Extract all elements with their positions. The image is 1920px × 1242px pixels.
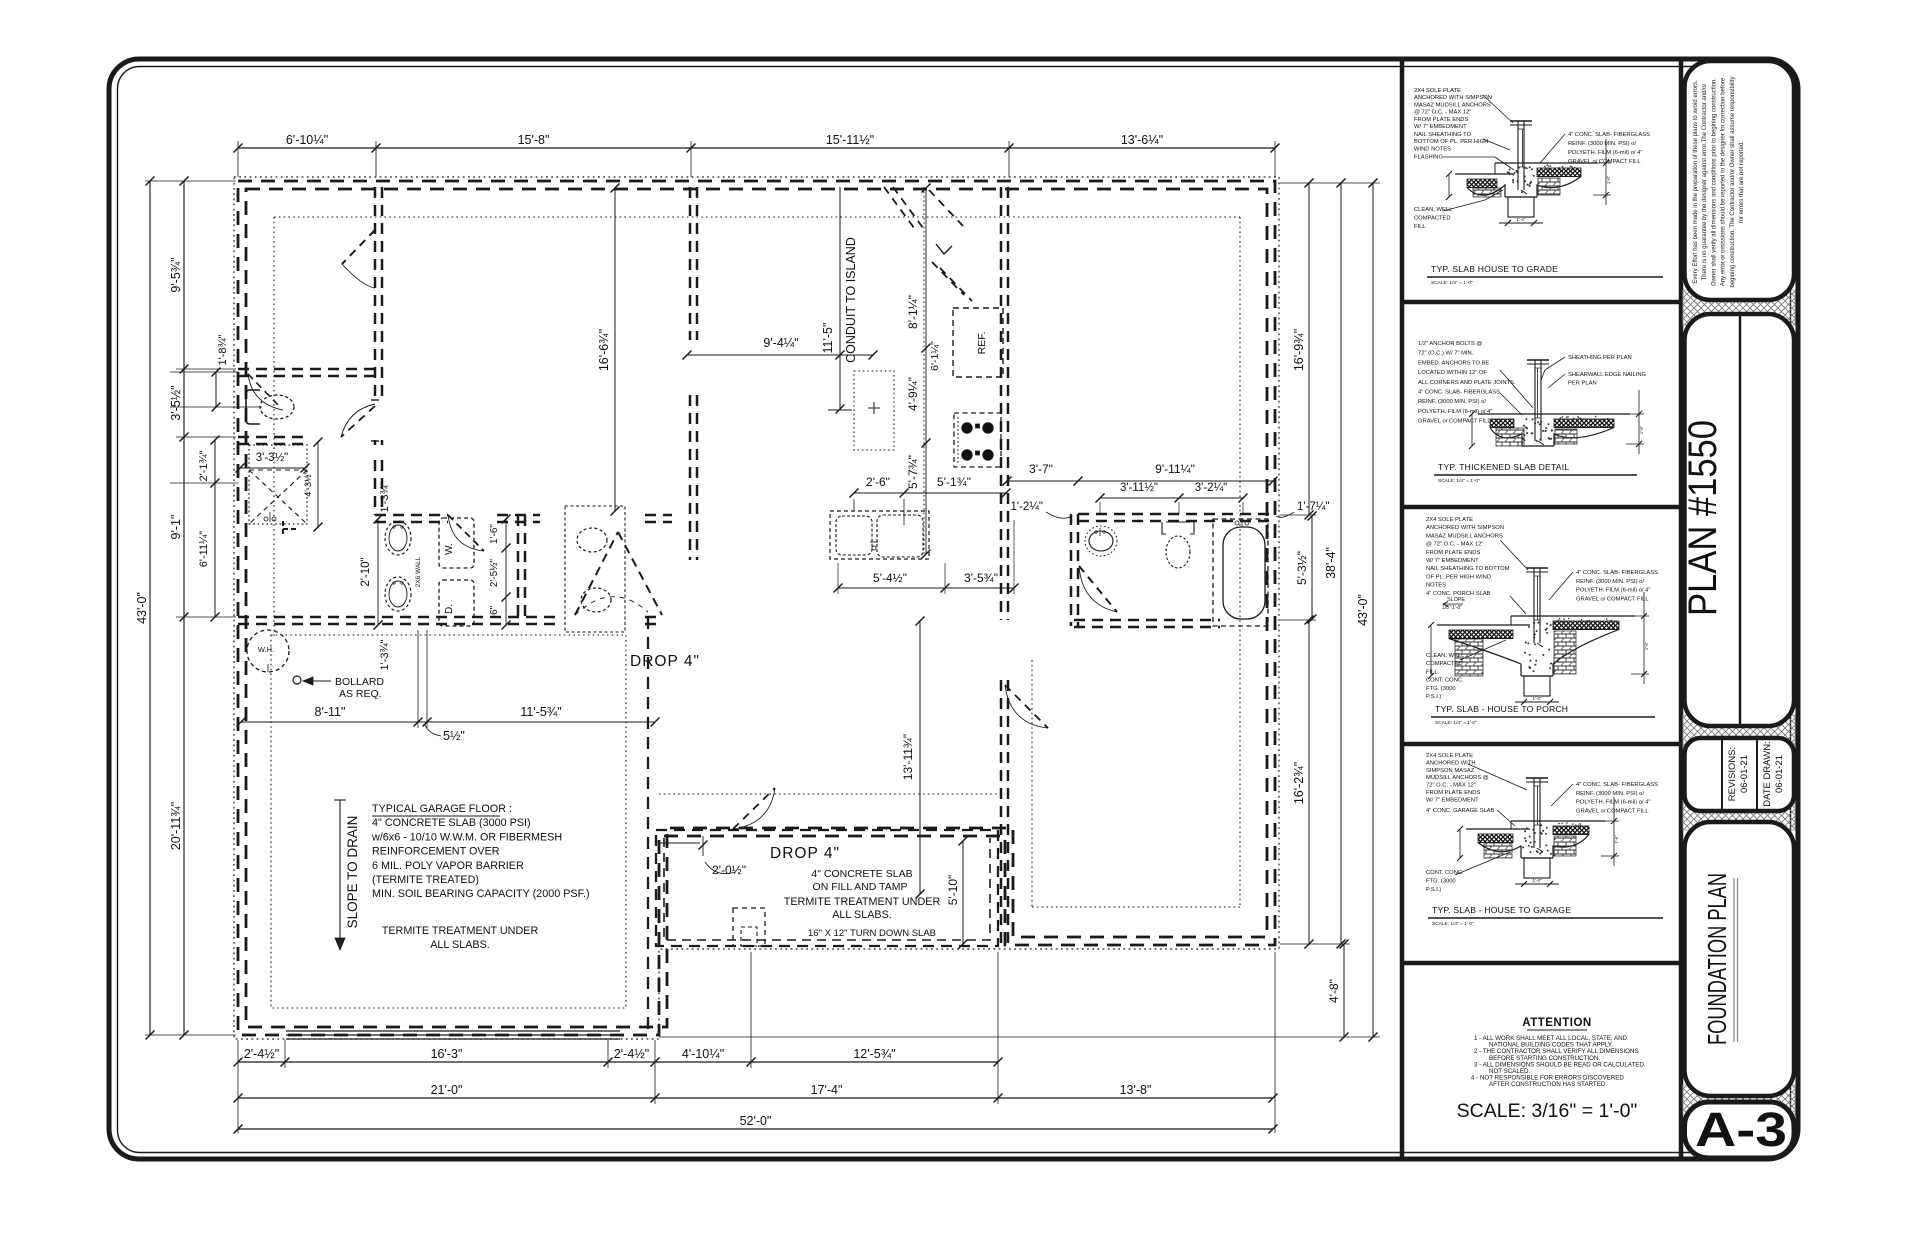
svg-text:W/ 7" EMBEDMENT: W/ 7" EMBEDMENT — [1426, 797, 1479, 803]
svg-text:LOCATED WITHIN 12" OF: LOCATED WITHIN 12" OF — [1418, 370, 1487, 376]
nook interior dim 13-11 — [919, 620, 921, 895]
right dim 4-8 — [1343, 944, 1345, 1037]
wall bath2 west — [1070, 514, 1073, 626]
svg-text:2'-10": 2'-10" — [360, 557, 372, 586]
kitchen sink dim 2-6 — [854, 492, 1006, 494]
svg-text:W.H.: W.H. — [258, 645, 274, 654]
sheet inner border — [118, 67, 1791, 1153]
door bath2 swing — [1079, 566, 1117, 612]
svg-text:GRAVEL o/ COMPACT FILL: GRAVEL o/ COMPACT FILL — [1576, 596, 1649, 602]
svg-text:POLYETH. FILM (6-mil) o/ 4": POLYETH. FILM (6-mil) o/ 4" — [1568, 150, 1642, 156]
svg-text:There is no guarantee by the d: There is no guarantee by the designer ag… — [1702, 84, 1708, 281]
water heater — [247, 630, 289, 672]
wall utility east — [517, 515, 520, 617]
svg-text:ANCHORED WITH SIMPSON: ANCHORED WITH SIMPSON — [1426, 525, 1504, 531]
svg-text:72" O.C. - MAX 12": 72" O.C. - MAX 12" — [1426, 783, 1476, 789]
wall bath1 south — [238, 436, 310, 439]
svg-text:BOLLARD: BOLLARD — [335, 676, 384, 688]
svg-text:SCALE: 3/16" = 1'-0": SCALE: 3/16" = 1'-0" — [1457, 1100, 1638, 1122]
svg-text:38'-4": 38'-4" — [1324, 547, 1338, 579]
svg-text:9'-11¼": 9'-11¼" — [1155, 462, 1195, 476]
detail panel divider 3 — [1402, 742, 1681, 747]
svg-text:FROM PLATE ENDS: FROM PLATE ENDS — [1426, 550, 1480, 556]
bottom dimension row 2 — [238, 1097, 1273, 1099]
bath1 shower dim 4-3half — [317, 441, 319, 528]
svg-text:6'-11¼": 6'-11¼" — [198, 531, 210, 567]
wall family/kitchen divider — [689, 187, 692, 340]
cooktop — [954, 413, 1001, 467]
svg-text:DROP 4": DROP 4" — [630, 653, 700, 670]
panel 4 leader lines — [1468, 764, 1527, 790]
svg-text:SCALE: 1/4" = 1'-0": SCALE: 1/4" = 1'-0" — [1432, 921, 1474, 927]
svg-text:13'-8": 13'-8" — [1120, 1083, 1152, 1097]
svg-text:ALL CORNERS AND PLATE JOINTS.: ALL CORNERS AND PLATE JOINTS. — [1418, 380, 1516, 386]
svg-text:CONT. CONC.: CONT. CONC. — [1426, 870, 1464, 876]
svg-text:REINF. (3000 MIN. PSI) o/: REINF. (3000 MIN. PSI) o/ — [1418, 399, 1486, 405]
svg-text:MASAZ MUDSILL ANCHORS: MASAZ MUDSILL ANCHORS — [1414, 102, 1491, 108]
garage double door swing — [575, 532, 618, 615]
svg-text:16'-2¾": 16'-2¾" — [1292, 762, 1306, 804]
bath2 dim tier2 — [1100, 497, 1243, 499]
svg-text:16" X 12" TURN DOWN SLAB: 16" X 12" TURN DOWN SLAB — [808, 928, 936, 939]
svg-text:EMBED. ANCHORS TO BE: EMBED. ANCHORS TO BE — [1418, 360, 1489, 366]
svg-text:Owner shall verify all dimensi: Owner shall verify all dimensions and co… — [1711, 78, 1717, 286]
wall master west — [1000, 680, 1003, 945]
top extension lines — [237, 141, 239, 177]
slope to drain arrow — [339, 800, 341, 950]
svg-text:1'-6": 1'-6" — [1606, 175, 1611, 184]
svg-text:5½": 5½" — [443, 729, 465, 743]
svg-text:2X6 WALL: 2X6 WALL — [415, 556, 422, 587]
svg-text:5'-4½": 5'-4½" — [873, 571, 907, 585]
svg-text:ANCHORED WITH: ANCHORED WITH — [1426, 760, 1476, 766]
svg-text:1'-4": 1'-4" — [1533, 696, 1542, 701]
refrigerator — [953, 308, 1003, 377]
svg-text:TYP. SLAB - HOUSE TO PORCH: TYP. SLAB - HOUSE TO PORCH — [1435, 704, 1568, 714]
left dim 43-0 — [149, 181, 151, 1035]
detail panel divider 2 — [1402, 505, 1681, 510]
svg-text:POLYETH. FILM (6-mil) o/ 4": POLYETH. FILM (6-mil) o/ 4" — [1576, 588, 1650, 594]
svg-text:PLAN #1550: PLAN #1550 — [1681, 420, 1725, 616]
svg-text:FOUNDATION PLAN: FOUNDATION PLAN — [1702, 873, 1732, 1045]
svg-text:1'-6": 1'-6" — [489, 524, 500, 544]
svg-text:17'-4": 17'-4" — [811, 1083, 843, 1097]
porch slab outline — [656, 830, 998, 946]
door nook to porch swing — [733, 788, 775, 829]
plan number box — [1685, 314, 1795, 726]
svg-text:NAIL SHEATHING TO: NAIL SHEATHING TO — [1414, 132, 1472, 138]
svg-text:TYPICAL GARAGE FLOOR :: TYPICAL GARAGE FLOOR : — [372, 803, 512, 815]
foundation outer dotted slab edge — [234, 177, 1279, 1039]
svg-text:1'-7¼": 1'-7¼" — [1297, 501, 1330, 513]
svg-text:-6": -6" — [489, 605, 500, 618]
svg-text:ALL SLABS.: ALL SLABS. — [832, 909, 892, 921]
svg-text:REINF. (3000 MIN. PSI) o/: REINF. (3000 MIN. PSI) o/ — [1576, 791, 1644, 797]
bottom extension lines — [237, 1040, 239, 1133]
svg-text:1'-3¾": 1'-3¾" — [379, 639, 391, 670]
svg-text:PER PLAN: PER PLAN — [1568, 381, 1597, 387]
top dimension row — [238, 147, 1275, 149]
svg-text:(TERMITE TREATED): (TERMITE TREATED) — [372, 874, 479, 886]
svg-text:4'-10¼": 4'-10¼" — [682, 1047, 724, 1061]
svg-text:TYP. SLAB - HOUSE TO GARAGE: TYP. SLAB - HOUSE TO GARAGE — [1432, 905, 1571, 915]
svg-text:ALL SLABS.: ALL SLABS. — [430, 939, 490, 951]
svg-text:FILL: FILL — [1414, 224, 1426, 230]
detail panel divider 1 — [1402, 300, 1681, 305]
svg-text:P.S.I.): P.S.I.) — [1426, 887, 1441, 893]
door bedroom2 swing — [342, 230, 375, 264]
svg-text:6 MIL. POLY VAPOR BARRIER: 6 MIL. POLY VAPOR BARRIER — [372, 860, 524, 872]
wall bath2 north — [1078, 513, 1275, 516]
svg-text:ON FILL AND TAMP: ON FILL AND TAMP — [813, 881, 908, 893]
svg-text:CONT. CONC.: CONT. CONC. — [1426, 678, 1464, 684]
svg-text:2'-4½": 2'-4½" — [614, 1047, 649, 1061]
foundation exterior wall outer dashed line — [238, 181, 1275, 1035]
svg-text:W.: W. — [444, 543, 455, 555]
bath2 tub — [1213, 519, 1268, 626]
plan number box divider — [1739, 316, 1742, 724]
svg-text:6'-10¼": 6'-10¼" — [286, 133, 328, 147]
panel 2 leader lines — [1500, 370, 1533, 408]
garage interior dim 8-11 / 11-5 / 5half — [241, 721, 655, 723]
svg-text:1/8":1'-0": 1/8":1'-0" — [1442, 605, 1462, 611]
svg-text:FROM PLATE ENDS: FROM PLATE ENDS — [1426, 790, 1480, 796]
svg-text:CONDUIT TO ISLAND: CONDUIT TO ISLAND — [844, 237, 858, 363]
svg-text:@ 72" O.C. - MAX 12": @ 72" O.C. - MAX 12" — [1414, 110, 1471, 116]
svg-text:8'-1¼": 8'-1¼" — [906, 295, 920, 329]
bath2 dim 3-7 and 9-11 — [1007, 480, 1273, 482]
svg-text:REVISIONS:: REVISIONS: — [1727, 747, 1738, 801]
family room dim 16-6 — [614, 187, 616, 512]
svg-text:TYP. SLAB HOUSE TO GRADE: TYP. SLAB HOUSE TO GRADE — [1431, 264, 1558, 274]
svg-text:3'-5¾": 3'-5¾" — [964, 571, 998, 585]
disclaimer box — [1685, 61, 1795, 300]
svg-text:3'-5½": 3'-5½" — [169, 385, 183, 420]
svg-text:w/6x6 - 10/10 W.W.M. OR FIBERM: w/6x6 - 10/10 W.W.M. OR FIBERMESH — [371, 831, 562, 843]
svg-text:4" CONCRETE SLAB (3000 PSI): 4" CONCRETE SLAB (3000 PSI) — [372, 817, 531, 829]
wall bath2 south — [1074, 619, 1220, 622]
svg-text:2X4 SOLE PLATE: 2X4 SOLE PLATE — [1414, 88, 1461, 94]
svg-text:Every Effort has been made in: Every Effort has been made in the prepar… — [1693, 80, 1699, 284]
svg-text:for errors that are not report: for errors that are not reported. — [1739, 141, 1745, 223]
svg-text:REINF. (3000 MIN. PSI) o/: REINF. (3000 MIN. PSI) o/ — [1568, 141, 1636, 147]
panel 3 slab section — [1437, 624, 1530, 626]
svg-text:NOTES: NOTES — [1426, 583, 1446, 589]
svg-text:4" CONC. SLAB- FIBERGLASS: 4" CONC. SLAB- FIBERGLASS — [1418, 390, 1500, 396]
svg-text:8'-11": 8'-11" — [315, 705, 346, 719]
svg-text:1'-2¼": 1'-2¼" — [1011, 501, 1044, 513]
svg-text:1'-4": 1'-4" — [1533, 878, 1542, 883]
svg-text:5'-10": 5'-10" — [946, 875, 960, 906]
wall kitchen east — [1000, 187, 1003, 620]
svg-text:FLASHING: FLASHING — [1414, 155, 1443, 161]
svg-text:15'-8": 15'-8" — [518, 133, 550, 147]
svg-text:P.S.I.): P.S.I.) — [1426, 694, 1441, 700]
kitchen dim 8-1quarter — [925, 187, 927, 555]
svg-text:GRAVEL o/ COMPACT FILL: GRAVEL o/ COMPACT FILL — [1418, 419, 1491, 425]
svg-text:1'-6": 1'-6" — [1644, 641, 1649, 650]
panel 3 leader lines — [1500, 540, 1528, 570]
shower bath1 — [249, 445, 307, 524]
wall hall south segments — [375, 514, 448, 517]
kitchen island — [854, 371, 894, 450]
svg-text:9'-5¾": 9'-5¾" — [169, 257, 183, 292]
svg-text:1'-3¾": 1'-3¾" — [379, 481, 391, 512]
utility dim 2-10 — [377, 518, 379, 626]
svg-text:FTG. (3000: FTG. (3000 — [1426, 686, 1456, 692]
svg-text:DROP 4": DROP 4" — [770, 845, 840, 862]
svg-text:MUDSILL ANCHORS @: MUDSILL ANCHORS @ — [1426, 775, 1489, 781]
svg-text:ATTENTION: ATTENTION — [1522, 1017, 1591, 1029]
svg-text:4" CONC. GARAGE SLAB: 4" CONC. GARAGE SLAB — [1426, 808, 1495, 814]
svg-text:4" CONC. SLAB- FIBERGLASS: 4" CONC. SLAB- FIBERGLASS — [1576, 782, 1658, 788]
svg-text:TERMITE TREATMENT UNDER: TERMITE TREATMENT UNDER — [382, 925, 539, 937]
svg-text:A-3: A-3 — [1695, 1104, 1787, 1157]
utility sinks — [385, 521, 411, 555]
panel 1 slab section — [1455, 173, 1514, 175]
foundation plan box — [1685, 822, 1795, 1096]
svg-text:Any error or omissions should: Any error or omissions should be reporte… — [1721, 77, 1727, 286]
svg-text:DATE DRAWN:: DATE DRAWN: — [1762, 741, 1773, 806]
left inner dim 1-8 — [215, 372, 217, 407]
svg-text:1'-6": 1'-6" — [1614, 835, 1619, 844]
svg-text:06-01-21: 06-01-21 — [1774, 755, 1785, 793]
wall utility west — [374, 460, 377, 515]
svg-text:4'-3½": 4'-3½" — [303, 471, 313, 496]
svg-text:1'-8¾": 1'-8¾" — [217, 334, 229, 365]
svg-text:3'-11½": 3'-11½" — [1120, 482, 1158, 494]
svg-text:43'-0": 43'-0" — [1356, 594, 1370, 626]
porch dim 5-10 — [962, 840, 964, 945]
svg-text:2X4 SOLE PLATE: 2X4 SOLE PLATE — [1426, 753, 1473, 759]
svg-text:ANCHORED WITH SIMPSON: ANCHORED WITH SIMPSON — [1414, 95, 1492, 101]
svg-text:FROM PLATE ENDS: FROM PLATE ENDS — [1414, 117, 1468, 123]
svg-text:2'-0½": 2'-0½" — [712, 863, 746, 877]
garage door lines — [286, 1030, 620, 1032]
panel 1 leader lines — [1483, 95, 1513, 123]
svg-text:9'-4¼": 9'-4¼" — [763, 336, 798, 350]
foundation exterior wall inner dashed line — [246, 189, 1267, 1027]
svg-text:MIN. SOIL BEARING CAPACITY (20: MIN. SOIL BEARING CAPACITY (2000 PSF.) — [372, 888, 590, 900]
detail panel divider 4 — [1402, 961, 1681, 966]
svg-text:4" CONC. PORCH SLAB: 4" CONC. PORCH SLAB — [1426, 591, 1491, 597]
divider main/detail column — [1400, 61, 1405, 1157]
svg-text:6'-1¼": 6'-1¼" — [929, 341, 941, 371]
svg-text:1'-4": 1'-4" — [1517, 217, 1526, 222]
svg-text:1/2" ANCHOR BOLTS @: 1/2" ANCHOR BOLTS @ — [1418, 341, 1482, 347]
panel 2 slab section — [1478, 413, 1531, 415]
svg-text:FTG. (3000: FTG. (3000 — [1426, 879, 1456, 885]
svg-text:W/ 7" EMBEDMENT: W/ 7" EMBEDMENT — [1426, 558, 1479, 564]
svg-text:TYP. THICKENED SLAB DETAIL: TYP. THICKENED SLAB DETAIL — [1438, 462, 1569, 472]
kitchen dim 9-4quarter — [687, 354, 873, 356]
right dim 38-4 — [1340, 183, 1342, 944]
svg-text:D.: D. — [444, 604, 455, 614]
right dim 5-3half — [1311, 515, 1313, 620]
svg-text:5'-7¾": 5'-7¾" — [906, 455, 920, 489]
left inner dims 2-1 and 6-11 — [214, 440, 216, 617]
svg-text:2'-5½": 2'-5½" — [489, 558, 500, 587]
svg-text:12'-5¾": 12'-5¾" — [853, 1047, 895, 1061]
left dim column segments — [183, 181, 185, 1035]
svg-text:3'-3½": 3'-3½" — [256, 452, 289, 464]
svg-text:11'-5": 11'-5" — [821, 323, 835, 354]
svg-text:AFTER CONSTRUCTION HAS STARTED: AFTER CONSTRUCTION HAS STARTED. — [1489, 1081, 1607, 1088]
svg-text:W/ 7" EMBEDMENT: W/ 7" EMBEDMENT — [1414, 124, 1467, 130]
panel 4 slab section — [1466, 828, 1530, 830]
svg-text:SCALE: 1/4" = 1'-0": SCALE: 1/4" = 1'-0" — [1435, 720, 1477, 726]
svg-text:1'-6": 1'-6" — [1639, 425, 1644, 434]
svg-text:@ 72" O.C. - MAX 12": @ 72" O.C. - MAX 12" — [1426, 542, 1483, 548]
divider detail/title column — [1679, 61, 1684, 1157]
svg-text:POLYETH. FILM (6-mil) o/ 4": POLYETH. FILM (6-mil) o/ 4" — [1576, 800, 1650, 806]
porch step — [733, 908, 765, 946]
svg-text:13'-6¼": 13'-6¼" — [1121, 133, 1163, 147]
svg-text:5'-3½": 5'-3½" — [1295, 551, 1309, 585]
svg-text:52'-0": 52'-0" — [740, 1114, 772, 1128]
sheet outer border — [109, 59, 1798, 1159]
svg-text:4'-8": 4'-8" — [1327, 979, 1341, 1003]
svg-text:2'-1¾": 2'-1¾" — [198, 450, 210, 481]
kitchen dim 5-4half 3-5three4 — [838, 587, 1014, 589]
svg-text:SLOPE: SLOPE — [1447, 597, 1465, 603]
svg-text:SHEARWALL EDGE NAILING: SHEARWALL EDGE NAILING — [1568, 372, 1647, 378]
svg-text:21'-0": 21'-0" — [431, 1083, 463, 1097]
toilet bath1 — [260, 395, 294, 419]
sheet number box A-3 — [1685, 1102, 1795, 1158]
svg-text:REINF. (3000 MIN. PSI) o/: REINF. (3000 MIN. PSI) o/ — [1576, 579, 1644, 585]
svg-text:11'-5¾": 11'-5¾" — [520, 705, 561, 719]
svg-text:2'-4½": 2'-4½" — [244, 1047, 279, 1061]
bath2 sink — [1085, 526, 1117, 556]
revisions box — [1685, 738, 1795, 811]
svg-text:2X4 SOLE PLATE: 2X4 SOLE PLATE — [1426, 517, 1473, 523]
bottom dimension row 3 — [238, 1128, 1273, 1130]
svg-text:NAIL SHEATHING TO BOTTOM: NAIL SHEATHING TO BOTTOM — [1426, 566, 1510, 572]
entry door swings — [884, 187, 917, 232]
svg-text:4" CONC. SLAB- FIBERGLASS: 4" CONC. SLAB- FIBERGLASS — [1576, 570, 1658, 576]
garage interior dotted line — [271, 635, 626, 1008]
svg-text:SCALE: 1/4" = 1'-0": SCALE: 1/4" = 1'-0" — [1431, 280, 1473, 286]
wall garage east — [647, 617, 649, 1035]
hall vanity sinks — [565, 506, 625, 632]
svg-text:13'-11¾": 13'-11¾" — [901, 734, 915, 780]
svg-text:SIMPSON MASAZ: SIMPSON MASAZ — [1426, 768, 1475, 774]
revisions box dividers — [1721, 740, 1723, 809]
svg-text:WIND NOTES: WIND NOTES — [1414, 146, 1451, 152]
svg-text:43'-0": 43'-0" — [135, 592, 149, 624]
wall hall west — [374, 187, 377, 402]
svg-text:16'-3": 16'-3" — [431, 1047, 463, 1061]
svg-text:15'-11½": 15'-11½" — [826, 133, 874, 147]
left extension lines — [145, 180, 236, 182]
svg-text:GRAVEL o/ COMPACT FILL: GRAVEL o/ COMPACT FILL — [1576, 808, 1649, 814]
bath2 toilet — [1166, 536, 1190, 568]
svg-text:5'-1¾": 5'-1¾" — [937, 475, 971, 489]
svg-text:9'-1": 9'-1" — [169, 515, 183, 540]
svg-text:AS REQ.: AS REQ. — [339, 688, 382, 700]
svg-text:SCALE: 1/4" = 1'-0": SCALE: 1/4" = 1'-0" — [1438, 478, 1480, 484]
svg-text:4'-9¼": 4'-9¼" — [906, 377, 920, 411]
kitchen dim 11-5 conduit — [839, 187, 841, 410]
svg-text:2'-6": 2'-6" — [866, 475, 890, 489]
right extension lines — [1280, 182, 1380, 184]
svg-text:SLOPE TO DRAIN: SLOPE TO DRAIN — [345, 816, 360, 929]
door master swing — [1005, 685, 1048, 728]
bottom dimension row 1 — [238, 1061, 998, 1063]
kitchen counter dotted edge — [923, 187, 925, 556]
door bath1 swing — [248, 374, 283, 410]
svg-text:20'-11¾": 20'-11¾" — [169, 802, 183, 850]
svg-text:REINFORCEMENT OVER: REINFORCEMENT OVER — [372, 846, 500, 858]
wall bath1 north — [238, 368, 375, 371]
svg-text:4" CONCRETE SLAB: 4" CONCRETE SLAB — [811, 868, 912, 880]
door bath1 hall swing — [341, 406, 375, 437]
door utility swing — [448, 515, 484, 551]
foundation plan underline — [1733, 878, 1735, 1042]
svg-text:4" CONC. SLAB- FIBERGLASS: 4" CONC. SLAB- FIBERGLASS — [1568, 132, 1650, 138]
title column hatch bands — [1683, 290, 1795, 325]
washer — [439, 518, 474, 568]
svg-text:begining construction. The Con: begining construction. The Contractor an… — [1730, 77, 1736, 288]
svg-text:3'-7": 3'-7" — [1029, 462, 1053, 476]
right dim 43-0 — [1372, 183, 1374, 1037]
right dim 16-9 and 16-2 — [1308, 183, 1310, 515]
wall garage north — [238, 616, 560, 619]
bollard — [293, 676, 301, 684]
svg-text:MASAZ MUDSILL ANCHORS: MASAZ MUDSILL ANCHORS — [1426, 533, 1503, 539]
svg-text:06-01-21: 06-01-21 — [1739, 755, 1750, 793]
svg-text:72" (O.C.) W/ 7" MIN.: 72" (O.C.) W/ 7" MIN. — [1418, 351, 1474, 357]
kitchen sink — [830, 511, 929, 559]
utility dim column — [505, 518, 507, 626]
interior slab reinforcement dotted lines — [274, 216, 1240, 218]
svg-text:BOTTOM OF PL. PER HIGH: BOTTOM OF PL. PER HIGH — [1414, 139, 1488, 145]
svg-text:16'-9¾": 16'-9¾" — [1292, 329, 1306, 371]
bath1 shower dim 3-3half — [240, 467, 305, 469]
svg-text:3'-2¼": 3'-2¼" — [1195, 482, 1228, 494]
svg-text:REF.: REF. — [976, 332, 988, 355]
svg-text:SHEATHING PER PLAN: SHEATHING PER PLAN — [1568, 355, 1632, 361]
dryer — [439, 580, 474, 626]
svg-text:COMPACTED: COMPACTED — [1414, 216, 1451, 222]
svg-text:OF PL. PER HIGH WIND: OF PL. PER HIGH WIND — [1426, 574, 1491, 580]
svg-text:16'-6¾": 16'-6¾" — [597, 329, 611, 371]
